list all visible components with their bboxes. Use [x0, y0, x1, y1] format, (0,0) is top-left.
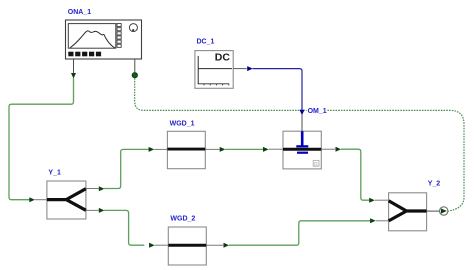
- wire Y_1 out2 to WGD_2 in: [104, 210, 144, 245]
- arrowhead WGD_1 input (right): [149, 147, 155, 152]
- node ONA_1 input port (green dot): [132, 73, 137, 78]
- OM_1 waveguide core: [283, 148, 321, 151]
- arrowhead WGD_1 output (right): [220, 147, 226, 152]
- Y_1 output port stub 1: [86, 188, 99, 190]
- ONA_1 input port stub: [134, 59, 136, 73]
- splitter Y_1 body: [35, 181, 100, 219]
- ONA_1 front buttons row: [68, 52, 101, 57]
- svg-text:DC_1: DC_1: [197, 39, 215, 46]
- arrowhead WGD_2 output (right): [224, 243, 230, 248]
- DC_1 y-axis: [197, 56, 199, 84]
- ONA_1 display screen: [68, 24, 116, 49]
- Y_2 output port marker (circled arrow): [440, 207, 448, 215]
- OM_1 corner marker: [313, 160, 319, 166]
- svg-text:WGD_1: WGD_1: [170, 120, 195, 127]
- Y_1 output port stub 2: [86, 209, 99, 211]
- svg-text:OM_1: OM_1: [308, 108, 327, 115]
- svg-text:Y_2: Y_2: [428, 181, 441, 188]
- WGD_2 input port stub: [155, 244, 169, 246]
- svg-text:DC: DC: [215, 52, 231, 64]
- wire DC_1 out to OM_1 mod in (electrical): [253, 69, 302, 111]
- DC_1 output port stub: [233, 68, 247, 70]
- wire Y_1 out1 to WGD_1 in: [104, 149, 149, 188]
- ONA_1 output port stub: [73, 59, 75, 73]
- OM_1 output port stub: [321, 148, 336, 150]
- arrowhead OM_1 modulation input (down, blue): [300, 110, 305, 116]
- source DC_1 body: [195, 51, 247, 89]
- wire WGD_1 out to OM_1 in: [225, 148, 263, 150]
- combiner Y_2 body: [375, 193, 440, 231]
- waveguide WGD_1 body: [154, 131, 220, 168]
- Y_1 input port stub: [35, 199, 47, 201]
- DC_1 x-axis with ticks: [198, 84, 229, 86]
- Y_1 splitter Y shape: [47, 189, 86, 211]
- Y_2 combiner Y shape: [389, 201, 427, 221]
- arrowhead Y_2 input1 (right): [369, 198, 375, 203]
- arrowhead ONA_1 output (down): [71, 73, 76, 79]
- WGD_2 output port stub: [206, 244, 224, 246]
- instrument ONA_1 optical network analyzer body: [66, 20, 142, 73]
- ONA_1 knob: [129, 24, 137, 32]
- DC_1 signal level line: [198, 68, 232, 70]
- arrowhead OM_1 input (right): [263, 147, 269, 152]
- ONA_1 waveform trace: [70, 31, 115, 48]
- svg-text:WGD_2: WGD_2: [170, 216, 195, 223]
- ONA_1 softkey buttons column: [117, 24, 121, 48]
- arrowhead Y_1 output1 (right): [99, 186, 105, 191]
- Y_2 output port stub: [427, 210, 440, 212]
- wire OM_1 out to Y_2 in1: [341, 149, 369, 200]
- WGD_1 waveguide core: [167, 148, 205, 151]
- svg-text:ONA_1: ONA_1: [68, 9, 91, 16]
- svg-text:Y_1: Y_1: [48, 170, 61, 177]
- arrowhead Y_1 input (right): [29, 197, 35, 202]
- modulator OM_1 body: [269, 115, 336, 169]
- OM_1 modulation port stub: [301, 115, 303, 131]
- WGD_2 waveguide core: [168, 244, 206, 247]
- wire WGD_2 out to Y_2 in2: [229, 221, 370, 245]
- waveguide WGD_2 body: [155, 227, 224, 265]
- Y_2 input port stub 1: [375, 199, 389, 201]
- WGD_1 input port stub: [154, 148, 167, 150]
- Y_2 input port stub 2: [376, 220, 389, 222]
- arrowhead OM_1 output (right): [336, 147, 342, 152]
- OM_1 input port stub: [269, 148, 283, 150]
- OM_1 label background: [307, 107, 328, 115]
- WGD_1 output port stub: [206, 148, 220, 150]
- arrowhead Y_2 input2 (right): [370, 218, 376, 223]
- arrowhead DC_1 output (right, blue): [247, 66, 253, 71]
- arrowhead Y_1 output2 (right): [99, 208, 105, 213]
- OM_1 electrode (blue): [301, 131, 304, 145]
- arrowhead WGD_2 input (right): [149, 243, 155, 248]
- dashed wire Y_2 out to ONA_1 in (logical): [135, 78, 464, 211]
- wire ONA_1 out to Y_1 in: [9, 78, 74, 200]
